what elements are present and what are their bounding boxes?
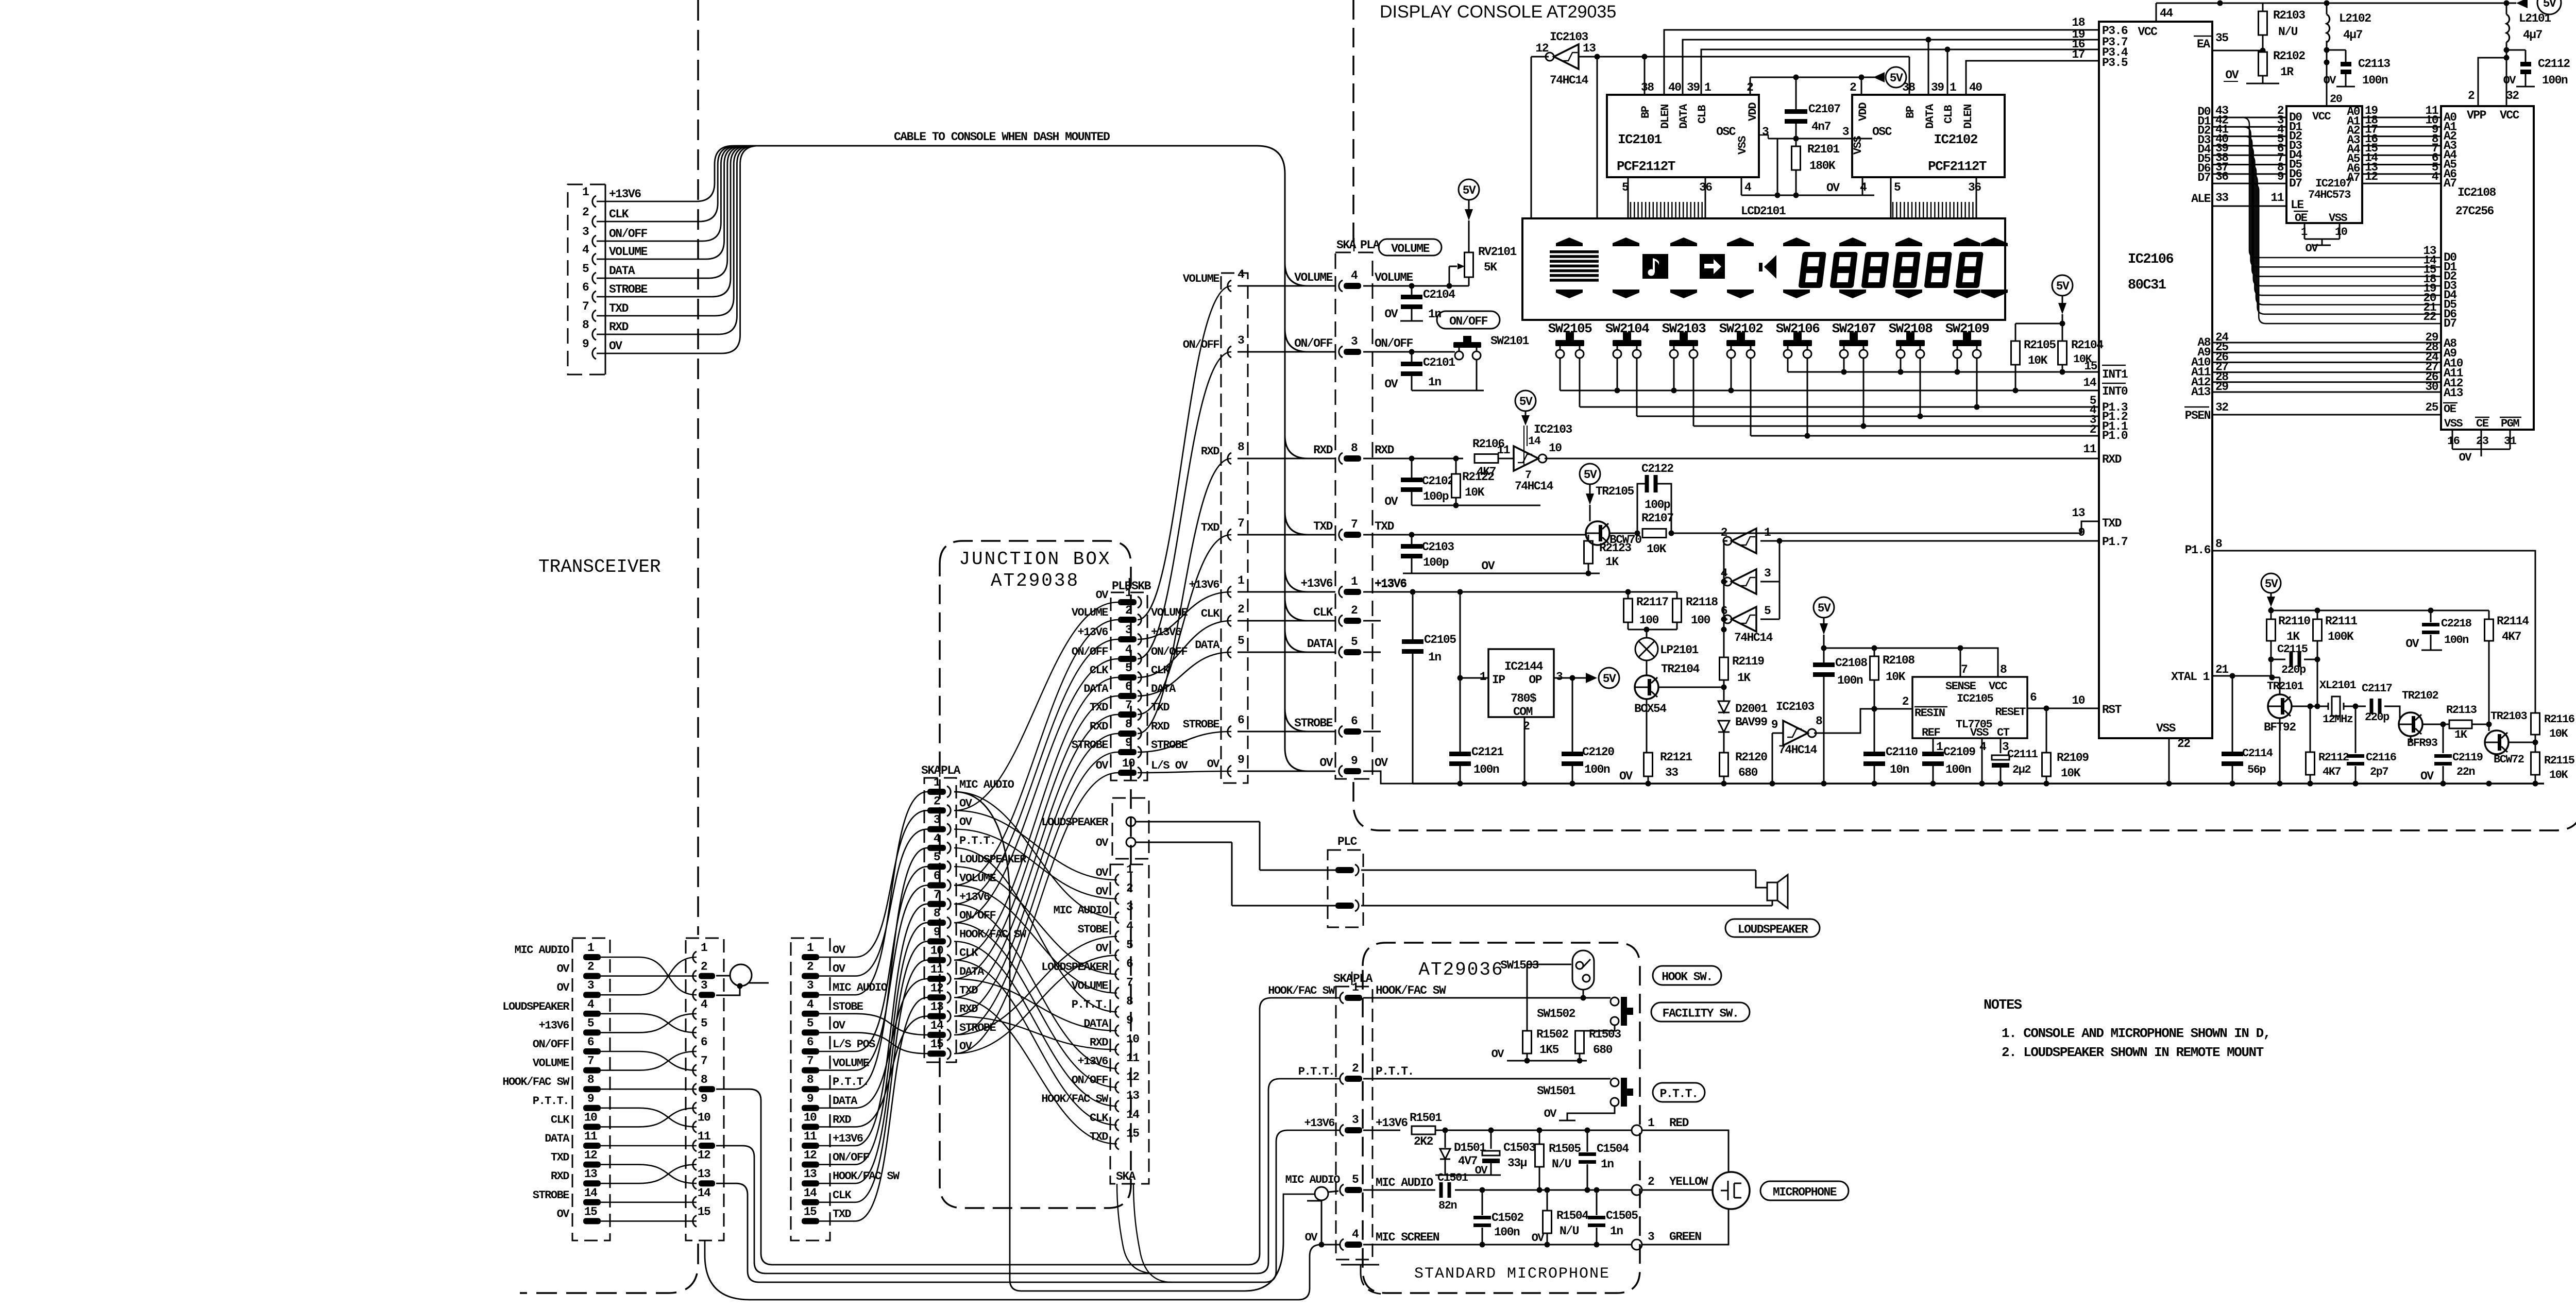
resistor R2109 10K [2042,708,2089,784]
svg-text:56p: 56p [2247,763,2266,776]
power 5V sense [1814,597,1834,651]
wire console trunk vertical [1285,237,1335,771]
svg-text:R2111: R2111 [2325,615,2357,628]
svg-text:VDD: VDD [1857,103,1870,121]
svg-text:VOLUME: VOLUME [1391,242,1430,256]
svg-text:OV: OV [1096,942,1109,955]
svg-text:10K: 10K [1647,542,1667,556]
svg-text:44: 44 [2160,7,2173,20]
resistor R2112 4K7 [2306,706,2349,784]
svg-text:1K: 1K [1737,671,1751,685]
svg-text:100n: 100n [1473,763,1499,776]
svg-text:CLB: CLB [1696,105,1709,124]
wire transceiver pin 2 to cable bundle [597,146,764,222]
wire r2108 c2110 vertical [1874,709,1875,752]
svg-text:VPP: VPP [2467,109,2486,122]
svg-text:4µ7: 4µ7 [2523,28,2543,42]
power 5V top right [2516,0,2561,14]
svg-text:1: 1 [1480,670,1486,684]
connector C pin 11 +13V6 [802,1130,863,1149]
svg-text:+13V6: +13V6 [833,1132,863,1145]
svg-text:14: 14 [1126,1108,1140,1121]
svg-text:74HC14: 74HC14 [1734,631,1773,644]
junction box dashed box [940,541,1131,1208]
svg-text:32: 32 [2506,89,2519,103]
resistor R2121 33 [1644,699,1692,784]
svg-text:12: 12 [584,1149,597,1162]
svg-text:8: 8 [582,318,589,332]
svg-text:22: 22 [2177,737,2190,751]
svg-text:5K: 5K [1484,261,1497,274]
wire trunk peel to VOLUME [1285,263,1335,286]
svg-text:EA: EA [2197,38,2210,51]
svg-text:A13: A13 [2191,385,2211,399]
svg-text:VCC: VCC [1989,680,2007,693]
label RXD right of pin [1375,444,1394,457]
svg-text:2K2: 2K2 [1414,1135,1433,1148]
wire B13 rxd to mic [716,1130,1340,1282]
connector transceiver 15way A frame [572,938,610,1240]
connector A pin 8 HOOK/FAC SW [502,1073,601,1092]
svg-text:5V: 5V [2056,280,2070,293]
connector pin 2 CLK [582,206,629,227]
label STANDARD MICROPHONE [1414,1265,1610,1283]
svg-text:OV: OV [609,339,622,353]
label TXD right of pin [1375,520,1394,533]
connector junction SKA lower pin 11 +13V6 [1077,1051,1139,1074]
svg-text:100n: 100n [2444,634,2468,647]
ic IC2102 PCF2112T [1842,81,2005,194]
svg-text:OV: OV [2503,74,2517,87]
label P.T.T. left [1298,1065,1334,1078]
power 5V rxd inverter [1515,390,1536,466]
wire transceiver pin 9 to cable bundle [597,146,764,353]
svg-text:39: 39 [1931,81,1944,94]
label HOOK/FAC SW left [1268,984,1335,997]
svg-text:C1505: C1505 [1606,1209,1638,1222]
svg-text:6: 6 [701,1035,707,1049]
ic IC2107 OE VSS pins [2294,211,2347,255]
svg-text:2: 2 [582,206,589,219]
svg-text:9: 9 [2277,170,2284,183]
wire tr2102 emitter [2422,722,2450,727]
ic IC2108 bottom pins [2444,417,2521,464]
svg-text:5: 5 [1125,661,1132,675]
svg-text:IC2103: IC2103 [1550,30,1588,44]
svg-text:14: 14 [584,1186,598,1200]
connector junction SKA pin 15 OV [927,1038,973,1059]
svg-text:LP2101: LP2101 [1660,643,1699,657]
svg-text:HOOK SW.: HOOK SW. [1662,971,1712,984]
connector junction SKA pin 10 CLK [927,944,978,966]
wire xtal to tr2101 [2269,659,2275,681]
wires braid C to junction SKA [819,792,927,1221]
svg-text:7: 7 [587,1055,594,1068]
connector A pin 6 ON/OFF [533,1035,601,1055]
svg-text:2: 2 [2468,89,2475,103]
svg-text:XL2101: XL2101 [2319,679,2357,692]
svg-text:8: 8 [934,907,940,920]
svg-text:10: 10 [2072,694,2084,707]
svg-text:C2114: C2114 [2242,747,2273,760]
inverter IC2103 gate4-3 [1721,567,1780,594]
svg-text:TR2102: TR2102 [2402,689,2438,702]
svg-text:LE: LE [2291,198,2303,212]
resistor R2107 10K [1641,512,1674,556]
loudspeaker symbol [1767,875,1788,908]
svg-text:1: 1 [1125,586,1132,600]
svg-text:TR2105: TR2105 [1596,485,1634,498]
svg-text:15: 15 [584,1205,597,1218]
connector PLB SKB frame [1111,578,1151,780]
svg-text:7: 7 [1351,518,1358,531]
svg-text:RXD: RXD [2102,453,2122,466]
wire 5v sense rail [1824,645,1998,677]
lcd signal bars icon [1550,250,1599,282]
wire strobe stub [1363,731,1381,733]
wire transceiver pin 8 to cable bundle [597,146,764,334]
svg-text:VOLUME: VOLUME [1183,273,1220,285]
connector B pin 4 [693,998,708,1019]
connector column pin 2 CLK [1201,603,1244,626]
svg-text:BAV99: BAV99 [1735,716,1767,729]
svg-text:C2112: C2112 [2538,57,2570,71]
svg-text:OV: OV [1384,308,1398,321]
svg-text:39: 39 [1687,81,1700,94]
wire inverter inputs tie [1777,538,1783,620]
svg-text:4: 4 [1352,1228,1359,1241]
connector junction SKA pin 7 +13V6 [927,888,990,910]
label NOTES [1984,998,2022,1013]
svg-text:10: 10 [698,1111,710,1124]
wire B8 hook/fac to mic [716,998,1340,1265]
connector junction SKA pin 12 TXD [927,981,978,1003]
svg-text:4: 4 [1125,643,1132,656]
connector mic pin 1 HOOK/FAC SW [1340,981,1446,1004]
transistor TR2103 BCW72 [2485,710,2528,766]
inverter IC2103 rxd gate [1497,423,1572,493]
connector B pin 1 [693,941,707,963]
switch SW2109 [1945,321,1990,358]
svg-text:RXD: RXD [833,1113,851,1126]
label CLK left of connector [1313,606,1333,619]
svg-text:10K: 10K [1465,486,1485,499]
capacitor C1504 1n [1579,1130,1629,1190]
svg-text:C2122: C2122 [1641,462,1673,475]
connector B pin 6 [693,1035,707,1057]
svg-text:1: 1 [1704,81,1711,94]
resistor R2119 1K [1720,630,1765,687]
connector C pin 2 OV [802,960,846,979]
connector B pin 9 [693,1092,707,1114]
bus D0-D7 loop to IC2108 [2242,117,2457,330]
svg-text:BFR93: BFR93 [2407,737,2438,750]
svg-text:XTAL 1: XTAL 1 [2171,670,2210,684]
svg-text:STOBE: STOBE [833,1000,863,1013]
connector A pin 13 RXD [551,1167,601,1186]
svg-text:11: 11 [2083,443,2096,456]
svg-text:IC2105: IC2105 [1957,692,1994,705]
svg-text:ON/OFF: ON/OFF [1151,645,1188,658]
wire sense stub [1960,648,1961,677]
svg-text:C2102: C2102 [1422,474,1454,488]
svg-text:13: 13 [930,1000,943,1014]
svg-text:OV: OV [1544,1108,1557,1120]
svg-text:ON/OFF: ON/OFF [1294,337,1333,350]
svg-text:RXD: RXD [551,1170,569,1183]
svg-text:RESET: RESET [1995,706,2026,719]
svg-text:C2105: C2105 [1424,633,1456,647]
svg-text:1: 1 [701,941,707,955]
svg-text:4µ7: 4µ7 [2343,28,2363,42]
svg-text:TXD: TXD [609,302,629,315]
svg-text:2: 2 [1648,1175,1654,1188]
connector junction SKA lower pin 7 VOLUME [1072,976,1133,999]
svg-text:220p: 220p [2281,664,2306,676]
svg-text:10K: 10K [1886,670,1906,684]
resistor R2120 680 [1720,751,1768,784]
svg-text:C2115: C2115 [2277,643,2308,656]
svg-text:ON/OFF: ON/OFF [833,1151,869,1164]
connector mic pin 5 MIC AUDIO [1340,1173,1433,1196]
wire mic audio feed [954,792,1315,1291]
svg-text:PCF2112T: PCF2112T [1617,159,1675,174]
svg-text:OSC: OSC [1872,125,1892,139]
label VOLUME left of connector [1294,271,1333,284]
svg-text:33µ: 33µ [1507,1157,1527,1170]
svg-text:DISPLAY CONSOLE AT29035: DISPLAY CONSOLE AT29035 [1380,2,1616,22]
wire OP to 5V [1554,675,1586,681]
inverter IC2103 gate9-8 [1771,700,1822,784]
svg-text:R1502: R1502 [1536,1028,1568,1041]
svg-text:PCF2112T: PCF2112T [1928,159,1987,174]
connector SKA-PLA pin 7 TXD [1339,518,1361,540]
connector A pin 3 OV [557,979,601,998]
wire txd 0V line [1403,559,1600,576]
svg-text:REF: REF [1922,726,1940,739]
transistor TR2101 BFT92 [2264,677,2304,784]
connector junction SKA lower pin 15 TXD [1090,1127,1139,1149]
svg-text:CLK: CLK [609,208,629,221]
resistor R2110 1K [2267,610,2311,659]
svg-text:ALE: ALE [2191,192,2211,206]
capacitor C2108 100n [1813,648,1867,784]
svg-text:TR2104: TR2104 [1661,662,1700,676]
svg-text:1K5: 1K5 [1539,1043,1559,1057]
wire column pin 7 to console [1238,534,1335,536]
connector junction SKA lower pin 3 MIC AUDIO [1054,900,1133,923]
svg-text:MIC AUDIO: MIC AUDIO [959,778,1014,791]
svg-text:C1504: C1504 [1597,1142,1629,1155]
svg-text:RXD: RXD [1151,720,1170,733]
svg-text:OV: OV [1096,837,1109,849]
svg-text:C1503: C1503 [1503,1141,1535,1154]
svg-text:VOLUME: VOLUME [1294,271,1333,284]
svg-text:VCC: VCC [2138,25,2158,39]
svg-text:4: 4 [1126,920,1133,933]
svg-text:CLB: CLB [1942,105,1955,124]
pin 44 VCC [2138,3,2174,39]
svg-text:14: 14 [804,1186,817,1200]
svg-text:D1501: D1501 [1454,1141,1486,1154]
svg-text:PLA: PLA [941,764,961,777]
svg-text:STROBE: STROBE [1151,739,1188,752]
wire column pin 4 to console [1238,285,1335,287]
wire tr2101 emitter [2292,659,2328,709]
svg-text:16: 16 [2447,435,2460,448]
svg-text:SENSE: SENSE [1945,680,1976,693]
wire ov console drop [1363,771,1413,784]
svg-text:OP: OP [1529,673,1541,687]
svg-text:4: 4 [934,832,941,845]
svg-text:8: 8 [807,1073,814,1086]
wire ALE line [2191,191,2303,212]
connector PLB-SKB pin 7 TXD [1090,699,1170,720]
wire trunk peel to RXD [1285,435,1335,458]
svg-text:5: 5 [587,1016,594,1030]
svg-text:680: 680 [1738,766,1758,779]
wire transceiver pin 6 to cable bundle [597,146,764,297]
svg-text:1. CONSOLE AND MICROPHONE SHOW: 1. CONSOLE AND MICROPHONE SHOWN IN D, [2002,1026,2270,1041]
svg-text:5: 5 [701,1016,707,1030]
switch SW2104 [1605,321,1650,358]
svg-text:CE: CE [2476,417,2489,430]
svg-text:9: 9 [1238,753,1244,767]
connector SKA-PLA pin 2 CLK [1339,604,1361,626]
svg-text:CLK: CLK [1313,606,1333,619]
svg-text:ON/OFF: ON/OFF [533,1038,569,1051]
wire loudspeaker pin1 [1136,822,1260,870]
capacitor C1502 100n [1473,1190,1523,1245]
wire tr2104 base [1658,685,1727,690]
resistor R2102 1R [2259,49,2306,83]
wires junction SKA to lower SKA braid [954,792,1117,1144]
svg-text:11: 11 [698,1130,710,1143]
svg-text:9: 9 [1771,718,1778,732]
connector junction SKA pin 1 MIC AUDIO [927,776,1014,797]
svg-text:A7: A7 [2347,171,2360,184]
svg-text:D7: D7 [2197,171,2210,184]
svg-text:R2103: R2103 [2273,9,2305,22]
svg-text:OV: OV [2324,74,2337,87]
svg-text:74HC14: 74HC14 [1550,74,1589,87]
svg-text:R2108: R2108 [1883,654,1914,667]
svg-text:12: 12 [2365,170,2378,183]
svg-text:N/U: N/U [1560,1225,1579,1238]
svg-text:74HC14: 74HC14 [1778,743,1818,757]
svg-text:RXD: RXD [1313,444,1333,457]
connector mic bottom closure [1341,1265,1386,1294]
wire PSEN OE line [2184,401,2458,422]
svg-text:5V: 5V [1519,395,1533,409]
svg-text:DATA: DATA [1083,683,1109,695]
svg-text:R2121: R2121 [1660,751,1692,764]
connector junction SKA pin 2 OV [927,794,973,816]
svg-text:12MHz: 12MHz [2323,713,2353,726]
svg-text:+13V6: +13V6 [1300,577,1332,590]
svg-text:OV: OV [557,981,570,994]
resistor R2101 180K [1792,139,1840,195]
svg-text:100n: 100n [1584,763,1610,776]
capacitor C2119 22n [2434,724,2483,784]
connector SKA-PLA pin 5 DATA [1339,635,1361,658]
transistor TR2102 BFR93 [2396,689,2438,750]
svg-text:4: 4 [1238,268,1245,281]
svg-text:780$: 780$ [1511,692,1536,705]
label DATA left of connector [1307,637,1333,651]
svg-text:12: 12 [804,1149,817,1162]
svg-text:9: 9 [934,925,940,939]
svg-text:TXD: TXD [833,1208,851,1220]
svg-text:4K7: 4K7 [2323,766,2341,778]
connector C pin 13 HOOK/FAC SW [802,1167,900,1186]
svg-text:13: 13 [804,1167,817,1181]
connector SKA-PLA pin 4 VOLUME [1339,269,1361,292]
svg-text:14: 14 [698,1186,711,1200]
capacitor C2104 1n [1384,286,1455,321]
svg-text:100p: 100p [1645,498,1670,512]
svg-text:C2103: C2103 [1422,540,1454,554]
svg-text:7: 7 [582,300,589,313]
wire 5V line vdd [1750,75,1875,95]
svg-text:74HC14: 74HC14 [1515,480,1554,493]
svg-text:DATA: DATA [1195,639,1220,652]
svg-text:R2101: R2101 [1807,143,1839,156]
wire P1.6 line [2212,551,2535,713]
svg-text:8: 8 [1238,440,1244,454]
connector junction SKA lower pin 13 HOOK/FAC SW [1041,1089,1139,1112]
svg-text:5V: 5V [1463,184,1476,197]
inductor L2101 4u7 [2506,3,2551,42]
svg-text:L2102: L2102 [2339,12,2371,25]
svg-text:R2105: R2105 [2024,338,2056,352]
svg-text:RXD: RXD [1090,1036,1108,1049]
svg-text:1: 1 [807,941,814,955]
wire INT1 line [1788,360,2128,381]
wire transceiver pin 3 to cable bundle [597,146,764,241]
connector junction SKA lower pin 14 CLK [1090,1108,1140,1131]
connector SKA-PLA pin 1 +13V6 [1339,575,1361,598]
svg-text:3: 3 [1648,1230,1654,1244]
svg-text:+13V6: +13V6 [1304,1117,1334,1130]
svg-text:SW1502: SW1502 [1537,1007,1575,1021]
svg-text:MICROPHONE: MICROPHONE [1773,1186,1837,1199]
svg-text:VCC: VCC [2500,109,2520,122]
svg-text:15: 15 [1126,1127,1139,1140]
svg-text:6: 6 [807,1035,814,1049]
svg-text:P.T.T.: P.T.T. [959,835,995,847]
wire osc tie [1759,135,1872,139]
wire d1501 0V bar [1435,1164,1501,1177]
svg-text:N/U: N/U [1552,1158,1571,1171]
svg-text:CLK: CLK [959,947,978,960]
svg-text:9: 9 [1351,754,1358,768]
regulator IC2144 780x [1480,649,1563,733]
svg-text:7: 7 [807,1055,814,1068]
svg-text:L2101: L2101 [2519,12,2551,25]
svg-text:9: 9 [1126,1014,1133,1027]
svg-text:5: 5 [1894,181,1901,194]
svg-text:74HC573: 74HC573 [2308,189,2351,201]
svg-text:COM: COM [1513,705,1533,719]
microphone audio circle [716,964,769,995]
wire column pin 5 to console [1238,652,1335,653]
svg-text:1: 1 [582,185,589,199]
svg-text:VOLUME: VOLUME [533,1057,570,1070]
connector pin 7 TXD [582,300,629,321]
svg-text:OV: OV [557,963,570,976]
connector A pin 9 P.T.T. [533,1092,601,1111]
